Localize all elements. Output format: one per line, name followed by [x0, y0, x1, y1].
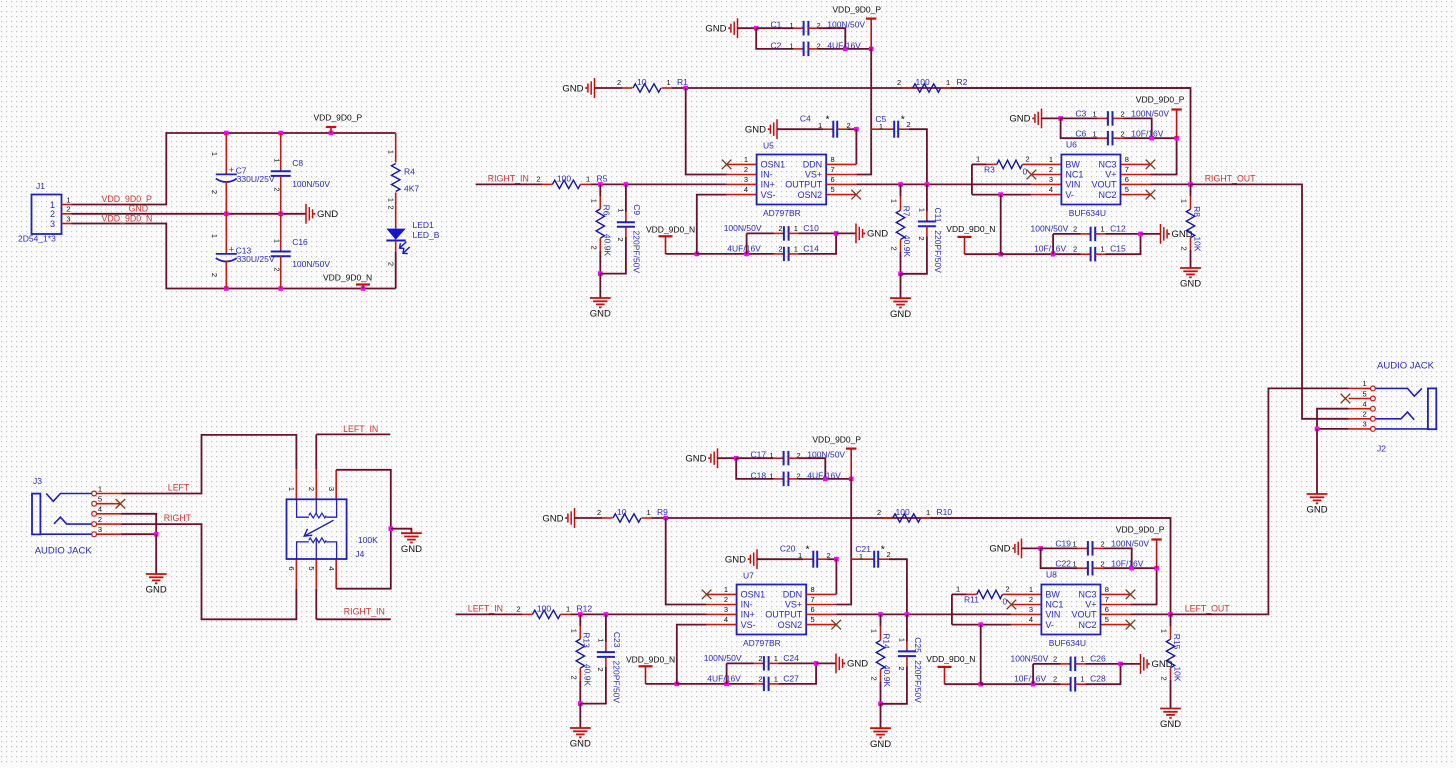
svg-text:R6: R6	[601, 205, 611, 216]
svg-text:C18: C18	[751, 470, 767, 480]
svg-text:VDD_9D0_N: VDD_9D0_N	[323, 272, 372, 282]
svg-text:IN-: IN-	[741, 600, 753, 610]
svg-text:LEFT_OUT: LEFT_OUT	[1185, 604, 1231, 614]
svg-text:2: 2	[570, 676, 579, 680]
svg-text:NC1: NC1	[1045, 600, 1063, 610]
svg-text:GND: GND	[705, 24, 726, 35]
svg-text:2: 2	[1006, 585, 1010, 594]
svg-text:NC2: NC2	[1078, 620, 1096, 630]
svg-text:1: 1	[1093, 129, 1097, 138]
svg-text:GND: GND	[725, 555, 746, 566]
svg-text:10F/16V: 10F/16V	[1034, 244, 1066, 254]
svg-text:10F/16V: 10F/16V	[1131, 128, 1163, 138]
svg-text:5: 5	[1125, 185, 1129, 194]
svg-text:3: 3	[1049, 175, 1053, 184]
svg-text:*: *	[901, 113, 905, 125]
svg-text:R11: R11	[964, 595, 979, 605]
svg-text:1: 1	[917, 208, 926, 212]
svg-text:2: 2	[758, 654, 762, 663]
svg-text:3: 3	[327, 487, 336, 491]
svg-text:GND: GND	[1160, 719, 1181, 730]
svg-text:2: 2	[272, 267, 281, 271]
svg-text:10: 10	[637, 77, 647, 87]
svg-text:6: 6	[287, 566, 296, 570]
svg-text:40.9K: 40.9K	[603, 234, 613, 257]
svg-text:2: 2	[387, 262, 396, 266]
svg-text:1: 1	[790, 21, 794, 30]
svg-text:2: 2	[917, 236, 926, 240]
svg-text:2: 2	[877, 508, 881, 517]
svg-text:1: 1	[596, 638, 605, 642]
svg-text:220PF/50V: 220PF/50V	[933, 230, 943, 273]
svg-text:C19: C19	[1055, 539, 1071, 549]
svg-text:LED_B: LED_B	[413, 230, 440, 240]
svg-text:2: 2	[870, 677, 879, 681]
svg-text:1: 1	[98, 484, 102, 493]
svg-text:GND: GND	[146, 585, 167, 596]
svg-text:VDD_9D0_N: VDD_9D0_N	[946, 224, 995, 234]
svg-text:C6: C6	[1075, 128, 1086, 138]
svg-text:100N/50V: 100N/50V	[827, 20, 865, 30]
svg-text:NC3: NC3	[1078, 590, 1096, 600]
svg-text:U5: U5	[763, 141, 774, 151]
svg-text:R9: R9	[657, 507, 668, 517]
svg-text:U7: U7	[743, 571, 754, 581]
svg-text:4UF/16V: 4UF/16V	[807, 470, 841, 480]
svg-text:2: 2	[597, 508, 601, 517]
svg-text:V-: V-	[1065, 190, 1074, 200]
svg-text:100: 100	[916, 77, 930, 87]
svg-text:1: 1	[956, 585, 960, 594]
svg-text:4: 4	[744, 185, 748, 194]
svg-text:1: 1	[387, 150, 396, 154]
svg-text:2: 2	[797, 451, 801, 460]
svg-text:C12: C12	[1110, 223, 1126, 233]
svg-text:R14: R14	[882, 633, 892, 649]
svg-text:220PF/50V: 220PF/50V	[631, 231, 641, 274]
svg-text:R10: R10	[937, 507, 953, 517]
svg-text:1: 1	[774, 654, 778, 663]
svg-text:2: 2	[1026, 155, 1030, 164]
svg-text:6: 6	[811, 605, 815, 614]
svg-text:IN+: IN+	[761, 180, 775, 190]
svg-text:100N/50V: 100N/50V	[724, 223, 762, 233]
svg-text:2: 2	[66, 205, 70, 214]
svg-text:100N/50V: 100N/50V	[292, 259, 330, 269]
svg-text:5: 5	[811, 615, 815, 624]
svg-text:0: 0	[1003, 597, 1008, 607]
svg-text:2: 2	[50, 209, 55, 219]
svg-text:C27: C27	[783, 674, 799, 684]
svg-text:4: 4	[327, 566, 336, 570]
svg-text:R3: R3	[984, 165, 995, 175]
svg-text:40.9K: 40.9K	[882, 665, 892, 688]
svg-text:100N/50V: 100N/50V	[1031, 223, 1069, 233]
svg-text:220PF/50V: 220PF/50V	[913, 660, 923, 703]
svg-text:V+: V+	[1085, 600, 1096, 610]
svg-text:C16: C16	[292, 237, 308, 247]
svg-text:VS+: VS+	[805, 170, 822, 180]
svg-text:1: 1	[667, 78, 671, 87]
svg-text:2: 2	[1160, 677, 1169, 681]
svg-text:1: 1	[946, 78, 950, 87]
svg-text:1: 1	[1073, 540, 1077, 549]
svg-text:2: 2	[890, 247, 899, 251]
svg-text:VDD_9D0_P: VDD_9D0_P	[812, 435, 861, 445]
svg-text:2: 2	[847, 121, 851, 130]
svg-text:*: *	[806, 544, 810, 556]
svg-text:1: 1	[590, 199, 599, 203]
svg-text:3: 3	[1363, 420, 1367, 429]
svg-text:40.9K: 40.9K	[902, 235, 912, 258]
svg-text:GND: GND	[542, 513, 563, 524]
svg-text:3: 3	[66, 214, 70, 223]
svg-text:C25: C25	[913, 637, 923, 653]
svg-text:J2: J2	[1377, 444, 1386, 454]
svg-text:8: 8	[811, 585, 815, 594]
svg-text:OSN1: OSN1	[741, 590, 766, 600]
svg-text:7: 7	[1125, 165, 1129, 174]
svg-text:2: 2	[1101, 559, 1105, 568]
svg-text:C9: C9	[632, 204, 642, 215]
svg-text:2: 2	[797, 472, 801, 481]
svg-text:100N/50V: 100N/50V	[704, 653, 742, 663]
svg-text:7: 7	[831, 165, 835, 174]
svg-text:AD797BR: AD797BR	[743, 638, 781, 648]
svg-text:GND: GND	[1306, 505, 1327, 516]
svg-text:GND: GND	[562, 83, 583, 94]
svg-text:4: 4	[1029, 615, 1033, 624]
svg-text:2: 2	[1363, 410, 1367, 419]
svg-text:100N/50V: 100N/50V	[292, 179, 330, 189]
svg-text:J3: J3	[33, 476, 42, 486]
svg-text:LEFT: LEFT	[168, 483, 190, 493]
svg-text:330U/25V: 330U/25V	[237, 174, 275, 184]
svg-text:5: 5	[1105, 615, 1109, 624]
svg-text:1: 1	[1093, 110, 1097, 119]
svg-text:4UF/16V: 4UF/16V	[707, 674, 741, 684]
svg-text:VS-: VS-	[761, 190, 776, 200]
svg-text:VDD_9D0_N: VDD_9D0_N	[626, 655, 675, 665]
svg-text:1: 1	[890, 199, 899, 203]
svg-text:VIN: VIN	[1065, 180, 1080, 190]
svg-text:V+: V+	[1105, 170, 1116, 180]
svg-text:8: 8	[831, 155, 835, 164]
svg-text:BUF634U: BUF634U	[1069, 208, 1106, 218]
svg-text:R1: R1	[677, 77, 688, 87]
svg-text:R15: R15	[1172, 634, 1182, 650]
svg-text:VDD_9D0_N: VDD_9D0_N	[646, 225, 695, 235]
svg-text:R4: R4	[404, 167, 415, 177]
svg-text:U8: U8	[1046, 570, 1057, 580]
svg-text:GND: GND	[989, 544, 1010, 555]
svg-text:LED1: LED1	[413, 220, 435, 230]
svg-text:RIGHT_IN: RIGHT_IN	[344, 607, 385, 617]
svg-text:J4: J4	[355, 549, 364, 559]
svg-text:2: 2	[387, 205, 396, 209]
svg-text:2: 2	[272, 187, 281, 191]
svg-text:2: 2	[1029, 595, 1033, 604]
svg-text:U6: U6	[1066, 140, 1077, 150]
svg-text:1: 1	[66, 195, 70, 204]
svg-text:2: 2	[724, 595, 728, 604]
svg-text:3: 3	[724, 605, 728, 614]
svg-text:10F/16V: 10F/16V	[1014, 674, 1046, 684]
svg-text:C26: C26	[1090, 653, 1106, 663]
svg-text:2: 2	[897, 78, 901, 87]
svg-text:1: 1	[818, 121, 822, 130]
svg-text:GND: GND	[1009, 114, 1030, 125]
svg-text:2: 2	[98, 515, 102, 524]
svg-text:1: 1	[1160, 629, 1169, 633]
svg-text:R12: R12	[577, 603, 593, 613]
svg-text:3: 3	[50, 219, 55, 229]
svg-text:R7: R7	[902, 206, 912, 217]
svg-text:AD797BR: AD797BR	[763, 208, 801, 218]
svg-text:RIGHT_IN: RIGHT_IN	[488, 173, 529, 183]
svg-text:1: 1	[897, 638, 906, 642]
svg-text:2: 2	[817, 21, 821, 30]
svg-text:LEFT_IN: LEFT_IN	[468, 603, 503, 613]
svg-text:*: *	[881, 543, 885, 555]
svg-text:GND: GND	[1152, 659, 1173, 670]
svg-text:1: 1	[272, 239, 281, 243]
svg-text:GND: GND	[745, 125, 766, 136]
svg-text:VOUT: VOUT	[1091, 180, 1117, 190]
svg-text:8: 8	[1105, 585, 1109, 594]
svg-text:10K: 10K	[1193, 236, 1203, 251]
svg-text:VDD_9D0_P: VDD_9D0_P	[832, 5, 881, 15]
svg-text:2: 2	[1073, 224, 1077, 233]
svg-text:R13: R13	[581, 632, 591, 648]
svg-text:10F/16V: 10F/16V	[1111, 558, 1143, 568]
svg-text:1: 1	[794, 245, 798, 254]
svg-text:1: 1	[976, 155, 980, 164]
svg-text:1: 1	[566, 604, 570, 613]
svg-text:IN+: IN+	[741, 610, 755, 620]
svg-text:2: 2	[617, 78, 621, 87]
svg-text:2: 2	[897, 666, 906, 670]
svg-text:1: 1	[1363, 379, 1367, 388]
svg-text:2: 2	[827, 551, 831, 560]
svg-text:100: 100	[537, 603, 551, 613]
svg-text:C11: C11	[933, 208, 943, 223]
svg-text:4: 4	[1363, 400, 1367, 409]
svg-text:*: *	[826, 114, 830, 126]
svg-text:100K: 100K	[358, 535, 378, 545]
svg-text:C23: C23	[612, 632, 622, 648]
svg-text:GND: GND	[129, 204, 149, 214]
svg-text:GND: GND	[317, 209, 338, 220]
svg-text:4K7: 4K7	[404, 184, 419, 194]
svg-text:VDD_9D0_N: VDD_9D0_N	[926, 654, 975, 664]
svg-text:1: 1	[770, 472, 774, 481]
svg-text:1: 1	[586, 174, 590, 183]
svg-text:BW: BW	[1045, 590, 1060, 600]
svg-text:C8: C8	[292, 158, 303, 168]
svg-text:330U/25V: 330U/25V	[237, 254, 275, 264]
svg-text:1: 1	[1029, 585, 1033, 594]
svg-text:VDD_9D0_P: VDD_9D0_P	[1136, 95, 1185, 105]
svg-text:5: 5	[831, 185, 835, 194]
svg-text:VS-: VS-	[741, 620, 756, 630]
svg-text:GND: GND	[1172, 229, 1193, 240]
svg-text:NC2: NC2	[1098, 190, 1116, 200]
svg-text:1: 1	[1101, 245, 1105, 254]
svg-text:1: 1	[210, 234, 219, 238]
svg-text:VS+: VS+	[785, 600, 802, 610]
svg-text:1: 1	[272, 158, 281, 162]
svg-text:VDD_9D0_N: VDD_9D0_N	[102, 213, 153, 223]
svg-text:VIN: VIN	[1045, 610, 1060, 620]
svg-text:100N/50V: 100N/50V	[1131, 109, 1169, 119]
svg-text:BUF634U: BUF634U	[1049, 638, 1086, 648]
svg-text:DDN: DDN	[803, 160, 823, 170]
svg-text:1: 1	[926, 508, 930, 517]
svg-text:R5: R5	[597, 173, 608, 183]
svg-text:NC3: NC3	[1098, 160, 1116, 170]
svg-text:2: 2	[907, 120, 911, 129]
svg-text:0: 0	[1023, 167, 1028, 177]
svg-text:3: 3	[744, 175, 748, 184]
svg-text:AUDIO JACK: AUDIO JACK	[1377, 361, 1435, 372]
svg-text:6: 6	[1105, 605, 1109, 614]
svg-text:1: 1	[1049, 155, 1053, 164]
svg-text:GND: GND	[890, 309, 911, 320]
svg-text:GND: GND	[685, 454, 706, 465]
svg-text:4: 4	[1049, 185, 1053, 194]
svg-text:1: 1	[1081, 654, 1085, 663]
svg-text:VDD_9D0_P: VDD_9D0_P	[314, 113, 363, 123]
svg-text:2: 2	[1053, 654, 1057, 663]
svg-text:GND: GND	[867, 229, 888, 240]
svg-text:C10: C10	[803, 223, 819, 233]
svg-text:2: 2	[758, 675, 762, 684]
svg-text:2: 2	[307, 487, 316, 491]
svg-text:OSN2: OSN2	[778, 620, 803, 630]
svg-text:2D54_1*3: 2D54_1*3	[18, 234, 56, 244]
svg-text:C21: C21	[855, 544, 871, 554]
svg-text:C2: C2	[771, 40, 782, 50]
svg-text:GND: GND	[870, 739, 891, 750]
svg-text:2: 2	[590, 246, 599, 250]
svg-text:OSN1: OSN1	[761, 160, 786, 170]
svg-text:VDD_9D0_P: VDD_9D0_P	[1116, 525, 1165, 535]
svg-text:1: 1	[1073, 559, 1077, 568]
svg-text:10K: 10K	[1173, 666, 1183, 681]
svg-text:1: 1	[724, 585, 728, 594]
svg-text:6: 6	[831, 175, 835, 184]
svg-text:R2: R2	[957, 77, 968, 87]
svg-text:C4: C4	[800, 113, 811, 123]
svg-text:1: 1	[879, 122, 883, 131]
svg-text:C24: C24	[783, 653, 799, 663]
svg-text:5: 5	[1363, 389, 1367, 398]
svg-text:GND: GND	[570, 739, 591, 750]
svg-text:V-: V-	[1045, 620, 1054, 630]
svg-text:VOUT: VOUT	[1071, 610, 1097, 620]
svg-text:1: 1	[287, 487, 296, 491]
svg-text:OUTPUT: OUTPUT	[765, 610, 803, 620]
svg-text:100N/50V: 100N/50V	[807, 450, 845, 460]
svg-text:7: 7	[811, 595, 815, 604]
svg-text:OSN2: OSN2	[798, 190, 823, 200]
svg-text:2: 2	[887, 550, 891, 559]
svg-text:+: +	[229, 165, 234, 175]
svg-text:BW: BW	[1065, 160, 1080, 170]
svg-text:4: 4	[724, 615, 728, 624]
svg-text:2: 2	[1121, 129, 1125, 138]
svg-text:40.9K: 40.9K	[583, 664, 593, 687]
svg-text:1: 1	[1081, 675, 1085, 684]
svg-text:1: 1	[859, 552, 863, 561]
svg-text:1: 1	[570, 629, 579, 633]
svg-text:1: 1	[744, 155, 748, 164]
svg-text:GND: GND	[847, 659, 868, 670]
svg-text:R8: R8	[1192, 206, 1202, 217]
svg-text:1: 1	[1180, 199, 1189, 203]
svg-text:1: 1	[210, 152, 219, 156]
svg-text:OUTPUT: OUTPUT	[785, 180, 823, 190]
svg-text:2: 2	[778, 224, 782, 233]
svg-text:2: 2	[517, 604, 521, 613]
svg-text:2: 2	[744, 165, 748, 174]
svg-text:1: 1	[616, 208, 625, 212]
svg-text:2: 2	[210, 273, 219, 277]
svg-text:2: 2	[817, 42, 821, 51]
svg-text:5: 5	[307, 566, 316, 570]
svg-text:C28: C28	[1090, 674, 1106, 684]
svg-text:2: 2	[1101, 540, 1105, 549]
svg-text:2: 2	[616, 237, 625, 241]
svg-text:100N/50V: 100N/50V	[1111, 539, 1149, 549]
svg-text:4UF/16V: 4UF/16V	[727, 244, 761, 254]
svg-text:8: 8	[1125, 155, 1129, 164]
svg-text:100: 100	[557, 173, 571, 183]
svg-text:AUDIO JACK: AUDIO JACK	[35, 546, 93, 557]
svg-text:+: +	[229, 244, 234, 254]
svg-text:GND: GND	[590, 309, 611, 320]
svg-text:100: 100	[896, 507, 910, 517]
svg-text:2: 2	[596, 667, 605, 671]
svg-text:1: 1	[798, 551, 802, 560]
svg-text:2: 2	[210, 190, 219, 194]
svg-text:2: 2	[1073, 245, 1077, 254]
svg-text:1: 1	[770, 451, 774, 460]
svg-text:3: 3	[1029, 605, 1033, 614]
svg-text:1: 1	[774, 675, 778, 684]
svg-text:3: 3	[98, 525, 102, 534]
svg-text:RIGHT: RIGHT	[164, 513, 192, 523]
svg-text:LEFT_IN: LEFT_IN	[343, 424, 378, 434]
svg-text:2: 2	[1053, 675, 1057, 684]
svg-text:C1: C1	[771, 20, 782, 30]
svg-text:C17: C17	[751, 450, 767, 460]
svg-text:4: 4	[98, 505, 102, 514]
svg-text:1: 1	[870, 629, 879, 633]
svg-text:C20: C20	[780, 543, 796, 553]
svg-text:1: 1	[647, 508, 651, 517]
svg-text:5: 5	[98, 495, 102, 504]
svg-text:7: 7	[1105, 595, 1109, 604]
svg-text:10: 10	[617, 507, 627, 517]
svg-text:RIGHT_OUT: RIGHT_OUT	[1205, 174, 1256, 184]
svg-text:2: 2	[1121, 110, 1125, 119]
svg-text:C14: C14	[803, 244, 819, 254]
svg-text:GND: GND	[1180, 279, 1201, 290]
svg-text:2: 2	[537, 174, 541, 183]
svg-text:2: 2	[778, 245, 782, 254]
